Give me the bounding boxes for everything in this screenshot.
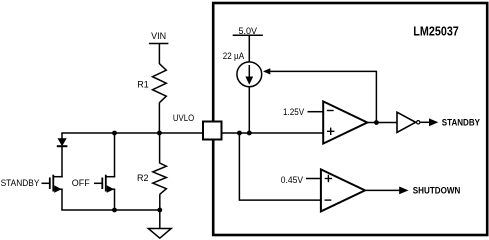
resistor R2	[159, 133, 161, 163]
node junction to shutdown comparator	[237, 131, 242, 136]
svg-text:5.0V: 5.0V	[239, 26, 258, 36]
wire VIN to R1	[158, 44, 160, 65]
svg-text:OFF: OFF	[72, 178, 90, 188]
wire feedback to current source	[265, 71, 377, 122]
node junction current source	[247, 131, 252, 136]
svg-text:R1: R1	[137, 80, 149, 90]
arrowhead STANDBY	[429, 118, 438, 126]
wire current source to UVLO net	[248, 87, 250, 133]
svg-text:SHUTDOWN: SHUTDOWN	[413, 186, 461, 196]
arrowhead SHUTDOWN	[399, 187, 408, 195]
pin minus U2	[325, 199, 332, 201]
node U1 output	[374, 120, 379, 125]
svg-text:0.45V: 0.45V	[281, 175, 303, 185]
svg-text:STANDBY: STANDBY	[1, 178, 40, 188]
wire UVLO net inside IC	[222, 132, 324, 134]
op-amp U2 0.45V comparator	[321, 169, 365, 211]
pin box UVLO	[203, 122, 222, 140]
IC box LM25037	[213, 3, 487, 235]
current source I1 22uA	[237, 62, 262, 87]
buffer U3	[397, 112, 416, 132]
bubble	[417, 121, 420, 124]
op-amp U1 1.25V comparator	[323, 101, 367, 143]
node junction R2 bottom	[157, 208, 162, 213]
ground	[148, 229, 171, 239]
wire bottom rail	[61, 209, 160, 211]
transistor Q1 STANDBY	[42, 175, 63, 210]
pin plus U1	[327, 128, 334, 135]
svg-text:22 µA: 22 µA	[223, 51, 244, 61]
wire R2 to ground	[159, 194, 161, 228]
svg-text:UVLO: UVLO	[173, 113, 194, 123]
wire U2 output to SHUTDOWN arrow	[365, 189, 400, 191]
wire UVLO rail (left of pin box)	[61, 132, 203, 134]
wire U1 output to node	[367, 122, 397, 124]
diode D1	[61, 133, 63, 139]
pin plus U2	[325, 175, 332, 182]
svg-text:STANDBY: STANDBY	[442, 118, 480, 128]
svg-text:LM25037: LM25037	[413, 24, 459, 38]
transistor Q2 OFF	[94, 133, 115, 210]
node junction at Q2 drain	[112, 131, 117, 136]
wire R1 to UVLO rail	[158, 103, 160, 133]
wire buffer to STANDBY arrow	[420, 121, 430, 123]
wire branch to 0.45V comparator minus input	[239, 133, 321, 200]
node junction at R1/R2	[157, 131, 162, 136]
wire 5.0V to current source	[248, 35, 250, 62]
node junction Q2 source	[112, 208, 117, 213]
svg-text:R2: R2	[137, 173, 149, 183]
svg-text:1.25V: 1.25V	[283, 107, 304, 117]
svg-text:VIN: VIN	[151, 31, 166, 41]
resistor R1	[153, 64, 167, 103]
arrowhead into current source	[263, 68, 270, 74]
pin minus U1	[327, 110, 334, 112]
